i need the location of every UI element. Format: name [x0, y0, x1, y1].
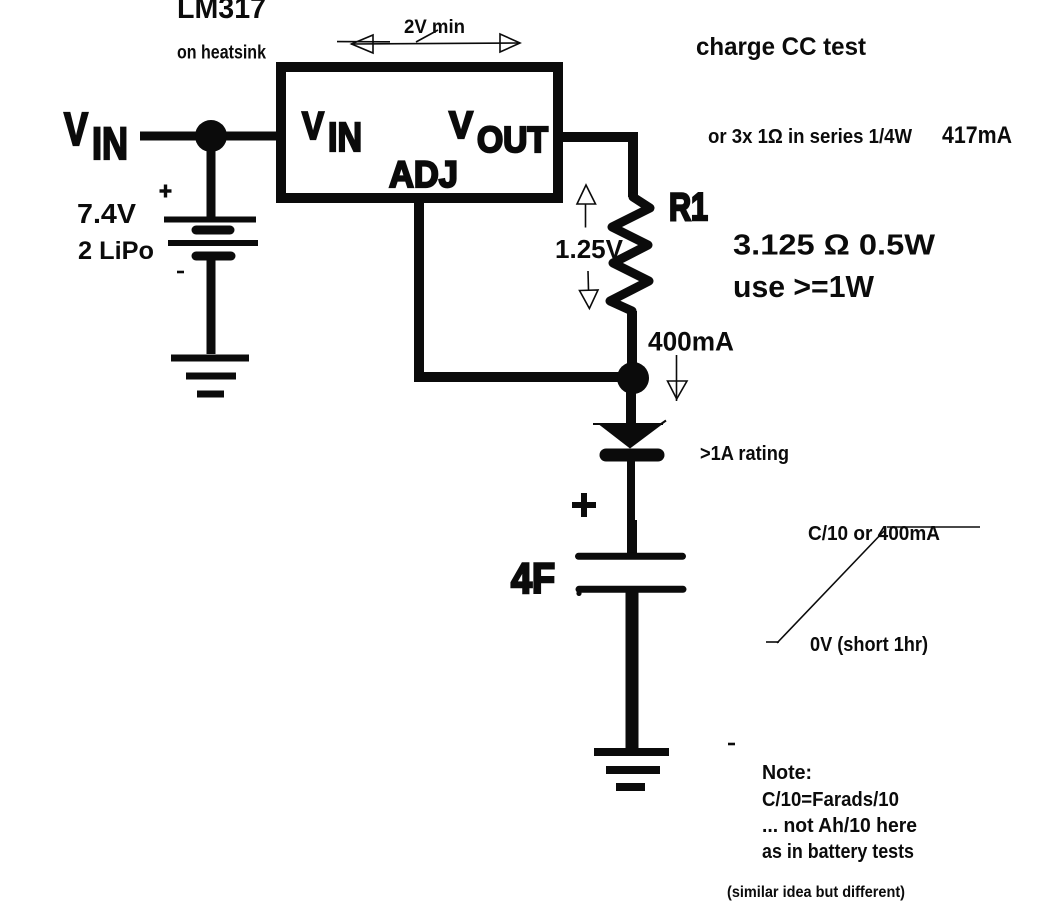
- svg-text:V: V: [302, 105, 324, 148]
- svg-text:IN: IN: [92, 118, 128, 169]
- svg-text:R1: R1: [669, 186, 708, 229]
- svg-text:2V min: 2V min: [404, 17, 465, 38]
- svg-text:0V (short 1hr): 0V (short 1hr): [810, 634, 928, 656]
- svg-text:or 3x 1Ω in series 1/4W: or 3x 1Ω in series 1/4W: [708, 126, 912, 148]
- battery BT1 7.4V 2 LiPo: [164, 220, 258, 257]
- svg-text:C/10 or 400mA: C/10 or 400mA: [808, 523, 940, 545]
- wire diode to capacitor: [627, 459, 635, 521]
- wire VIN input to regulator: [140, 132, 281, 141]
- svg-text:ADJ: ADJ: [389, 154, 458, 195]
- text - small mark near ground: [728, 743, 735, 746]
- svg-text:IN: IN: [328, 114, 362, 160]
- svg-text:2 LiPo: 2 LiPo: [78, 237, 154, 265]
- svg-text:7.4V: 7.4V: [77, 198, 136, 229]
- text + capacitor polarity: [572, 493, 596, 517]
- svg-text:charge CC test: charge CC test: [696, 33, 867, 61]
- svg-text:on heatsink: on heatsink: [177, 42, 266, 64]
- wire junction to battery: [207, 146, 216, 221]
- junction ADJ sense node: [617, 362, 649, 394]
- junction VIN node: [195, 120, 227, 152]
- svg-text:use >=1W: use >=1W: [733, 269, 875, 304]
- text + battery polarity: [160, 185, 172, 198]
- ground capacitor: [594, 752, 669, 787]
- svg-text:OUT: OUT: [477, 119, 548, 160]
- wire junction to diode: [626, 388, 636, 426]
- svg-text:(similar idea but different): (similar idea but different): [727, 884, 905, 901]
- svg-text:400mA: 400mA: [648, 327, 734, 357]
- resistor R1: [610, 197, 650, 311]
- svg-text:417mA: 417mA: [942, 122, 1012, 149]
- graph charge profile sketch: [766, 527, 980, 643]
- arrow 400mA current direction: [668, 355, 688, 401]
- svg-text:LM317: LM317: [177, 0, 266, 25]
- wire ADJ feedback: [419, 198, 625, 377]
- wire battery to ground: [207, 258, 216, 354]
- svg-text:as in battery tests: as in battery tests: [762, 841, 914, 863]
- arrow 1.25V up: [577, 185, 596, 228]
- wire VOUT to R1: [558, 137, 633, 197]
- svg-text:C/10=Farads/10: C/10=Farads/10: [762, 789, 899, 811]
- wire capacitor to ground: [626, 592, 639, 748]
- text - battery polarity: [177, 271, 184, 274]
- svg-text:V: V: [64, 103, 88, 155]
- IC U1 LM317 regulator box: [281, 67, 558, 198]
- svg-text:Note:: Note:: [762, 762, 812, 784]
- svg-text:1.25V: 1.25V: [555, 234, 624, 264]
- ground battery: [171, 358, 249, 394]
- diode D1: [593, 421, 666, 456]
- svg-text:3.125 Ω 0.5W: 3.125 Ω 0.5W: [733, 230, 936, 262]
- wire R1 to junction: [627, 311, 637, 368]
- arrow 2V min dropout annotation: [337, 30, 520, 53]
- capacitor C1 4F: [579, 556, 684, 589]
- svg-text:4F: 4F: [511, 555, 555, 603]
- svg-text:... not Ah/10 here: ... not Ah/10 here: [762, 815, 917, 837]
- svg-text:V: V: [449, 105, 474, 147]
- arrow 1.25V down: [580, 271, 599, 309]
- svg-text:>1A rating: >1A rating: [700, 442, 789, 465]
